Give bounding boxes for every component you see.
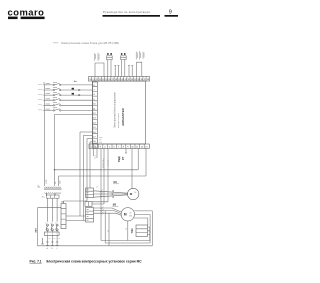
svg-text:компрессором: компрессором [118,113,120,128]
ladder row 1: contact SP1 [45,82,93,85]
bottom return bus 1 [101,240,150,242]
strip to motor-terminal wires [66,216,86,221]
stub wires below bottom row terminals 2-3 [94,149,97,159]
M2 cable slash marks [101,207,104,215]
left terminal column X2 [93,82,98,148]
ladder row 2: contact SP2 [45,87,93,90]
nested wire from terminal 16 [80,131,93,133]
pressure transducer B1 [136,51,144,77]
wire pair to terminals 28-29 [114,66,119,77]
supply cable arrow ticks [46,241,58,243]
transformer secondary to fuse box [47,193,56,195]
supply phase labels [47,247,59,250]
shielded cable box above terminals 21-23 [95,63,104,77]
thermal relay РТ box [45,232,60,235]
top terminal row numbers [89,79,150,81]
motor M1 terminal box [86,188,94,198]
svg-text:Электронный блок управления: Электронный блок управления [114,91,117,128]
wire terminal 10 to motor M1 [131,149,133,189]
terminal strip KL1 [61,202,66,229]
motor M2 terminal box [86,208,94,223]
motor M2 designator [112,203,118,206]
logo COMARO wordmark [8,6,45,17]
motor M2 bottom lead [127,221,129,241]
transformer primary feed labels (rotated) [46,179,61,184]
nested wire from terminal 18 [87,138,93,140]
staircase drop wire 3 [83,135,85,220]
contactor column labels [46,222,57,224]
supply terminals ticks [46,245,59,247]
transformer core [44,188,62,191]
PE conductor symbol [41,238,43,244]
svg-text:ТЭН: ТЭН [131,228,134,233]
stub below terminal 9 [125,149,127,154]
wire tag labels [97,186,128,232]
heater block TEN [136,225,148,237]
aux terminal box [85,202,92,207]
bus row ticks and labels [43,82,45,110]
ladder row labels left margin [38,84,42,110]
svg-text:Руководство по эксплуатации: Руководство по эксплуатации [103,10,150,14]
figure top caption [53,41,119,45]
svg-text:9: 9 [169,10,172,16]
nested wire from terminal 17 [84,134,93,136]
controller block U1 body [93,81,146,144]
cable arrowheads [112,190,114,198]
svg-text:Электрическая схема блока для: Электрическая схема блока для КВ-7В (10В… [61,41,119,45]
motor M1 (fan motor) [128,188,139,199]
wires from block to lower area [92,149,109,246]
transformer secondary taps [47,193,56,196]
supply cable stubs [47,235,57,245]
header rule left segment [103,15,161,17]
bottom terminal row numbers [91,147,149,149]
svg-text:Электрическая схема компрессор: Электрическая схема компрессорных устано… [46,260,142,264]
wire pair to terminals 33-34 [128,66,133,77]
cable slash marks [100,190,103,199]
ladder row 3: contact SP3 [45,93,93,96]
ladder row 5: contact SP5 [45,103,93,106]
svg-text:220B: 220B [46,179,48,184]
bottom return bus 3 [38,245,153,247]
supply cable small labels [49,238,61,240]
bottom terminal row X3 [89,144,149,149]
svg-text:М: М [124,213,127,217]
shielded cable label ticks (rotated text marks) [95,53,100,61]
motor M2 return verticals [150,211,152,246]
long bus wire y176 to terminal 13 [59,149,147,177]
bottom return bus 2 [105,242,150,244]
staircase drop to strip [64,139,88,204]
transformer secondary winding [45,192,61,193]
left control bus [44,84,46,186]
top terminal row X1 [89,77,150,82]
svg-text:AIRMASTER: AIRMASTER [121,107,125,126]
transformer TP primary feed wires [58,176,60,186]
pressure switch S1 [107,53,113,77]
header rule right segment [165,15,179,17]
long bus wire y171 from transformer to terminal 11 [55,149,139,170]
heater connection stubs [148,227,150,241]
transformer primary winding [45,187,61,188]
bottom figure caption [30,260,143,264]
svg-text:РТ: РТ [121,156,125,160]
fuse box Pr [42,195,59,199]
staircase drop wire 4 [89,142,91,188]
motor M1 designator [113,181,119,184]
staircase drop wire 2 [79,132,81,216]
motor M1 feed cable [94,191,128,197]
left outer wire [38,208,62,246]
logo underline bar right [21,17,45,20]
left terminal column numbers [93,85,96,148]
ladder row 4: contact SP4 [45,98,93,101]
small labels right of left column [99,138,103,143]
motor M2 feed wires [94,208,122,215]
three-phase feeders from fuse to contactor [47,198,57,222]
logo underline bar left [8,17,18,20]
motor M2 output wires right [134,211,152,225]
nested wire from terminal 19 [90,141,93,143]
pressure switch S2 [121,53,127,77]
nested wire from terminal 12 down-left [55,115,93,187]
wire labels column below row (rotated) [103,157,110,168]
contactor KM1 contacts [46,224,58,232]
svg-text:РВД: РВД [117,156,121,162]
svg-text:Рис. 7.1: Рис. 7.1 [30,260,42,264]
ladder row 6: contact SP6 [45,108,93,111]
motor M2 (compressor motor) [121,208,134,221]
svg-text:comaro: comaro [8,6,45,17]
svg-text:сеть: сеть [94,155,96,159]
